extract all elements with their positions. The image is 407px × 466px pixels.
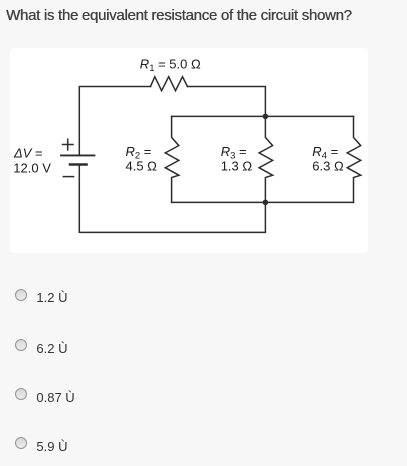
wire: battery positive up to top-left corner, top wire to R1 left lead — [79, 86, 150, 155]
answer option 2 — [15, 338, 395, 352]
battery plate long (positive) — [61, 154, 95, 156]
answer option 4 — [15, 436, 395, 450]
node A junction dot — [263, 114, 269, 120]
node B junction dot — [263, 200, 269, 206]
wire: node B down to bottom rail, back to battery negative — [79, 165, 265, 233]
battery plus sign — [63, 139, 74, 150]
battery minus sign — [63, 176, 73, 178]
answer option 1 — [15, 288, 395, 302]
svg-text:1.3 Ω: 1.3 Ω — [221, 158, 253, 173]
wire: parallel bank bottom rail — [172, 201, 354, 203]
svg-text:12.0 V: 12.0 V — [13, 160, 51, 175]
svg-text:4.5 Ω: 4.5 Ω — [126, 158, 158, 173]
wire: parallel bank top rail — [172, 115, 354, 117]
svg-text:ΔV =: ΔV = — [13, 146, 43, 161]
svg-text:6.3 Ω: 6.3 Ω — [312, 158, 344, 173]
resistor R3 — [259, 116, 273, 202]
circuit panel — [10, 48, 368, 253]
svg-text:R1 = 5.0 Ω: R1 = 5.0 Ω — [140, 56, 201, 74]
battery plate short (negative) — [70, 163, 87, 166]
answer option 3 — [15, 387, 395, 401]
resistor R4 — [347, 116, 361, 202]
wire: R1 right lead to top-right corner, down to node A — [187, 86, 265, 116]
question text — [6, 7, 352, 24]
resistor R1 — [151, 77, 188, 91]
resistor R2 — [165, 116, 179, 202]
